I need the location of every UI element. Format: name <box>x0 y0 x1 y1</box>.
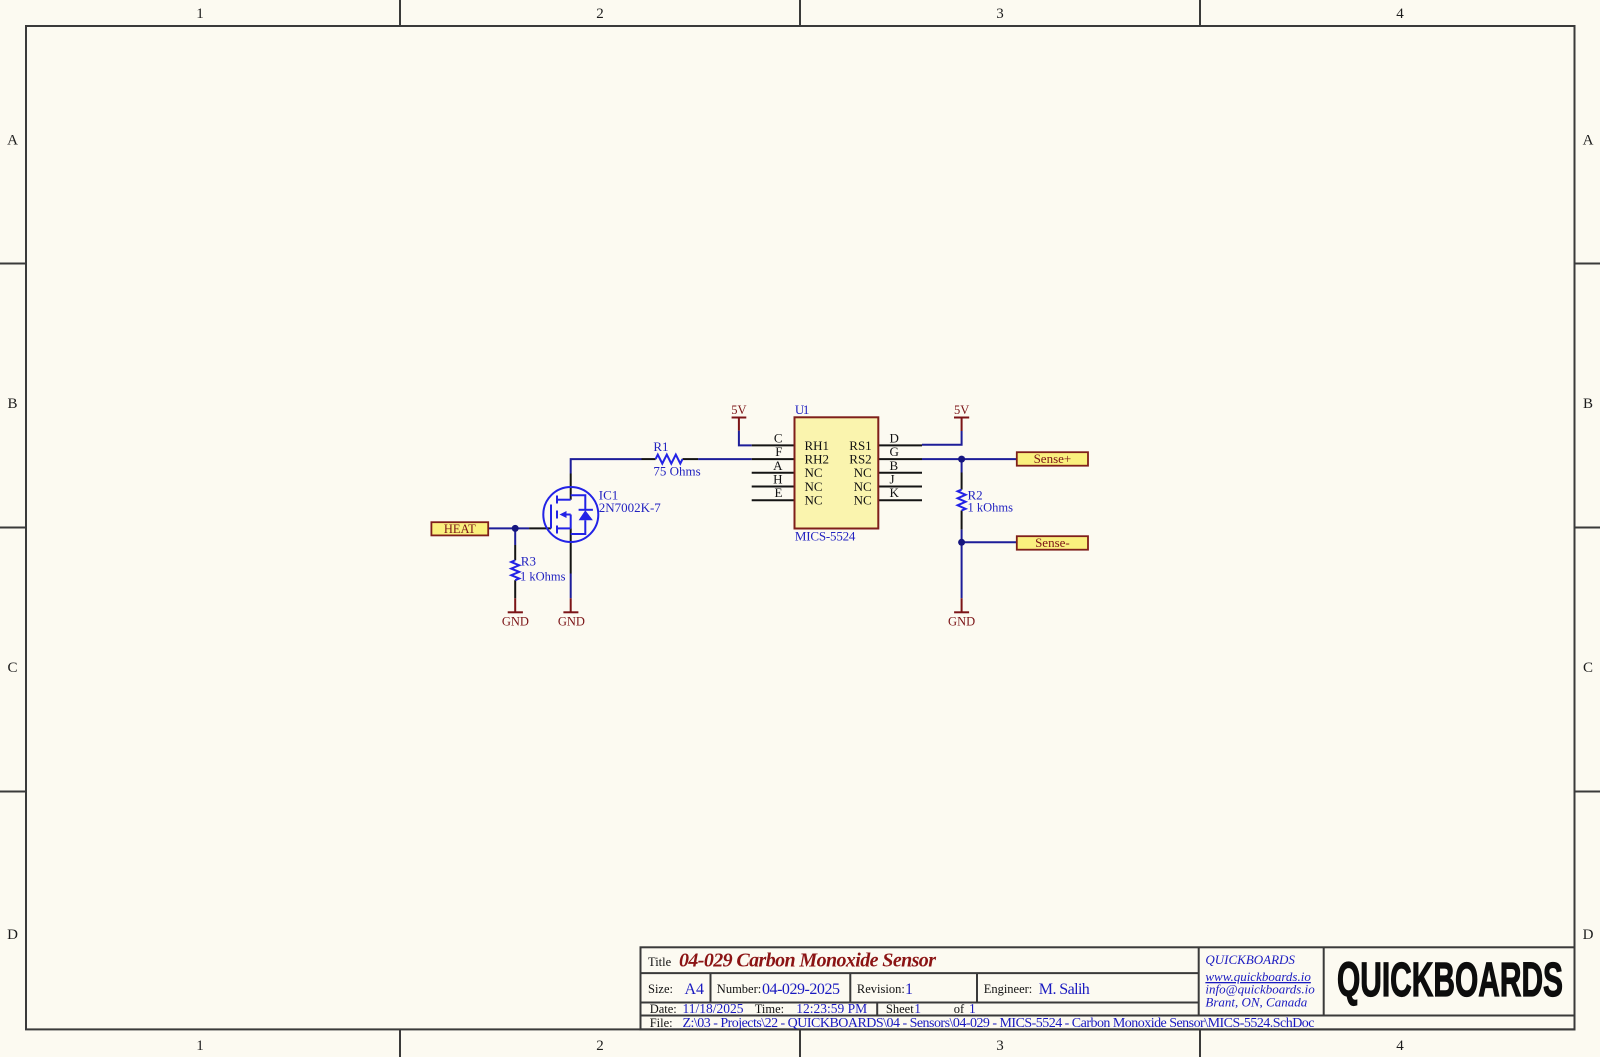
svg-text:12:23:59 PM: 12:23:59 PM <box>796 1001 867 1016</box>
svg-text:A4: A4 <box>685 981 705 998</box>
svg-text:Date:: Date: <box>650 1002 677 1016</box>
svg-text:D: D <box>7 927 18 943</box>
svg-text:HEAT: HEAT <box>444 522 476 536</box>
svg-text:M. Salih: M. Salih <box>1039 981 1090 998</box>
svg-text:Size:: Size: <box>648 982 673 996</box>
svg-text:E: E <box>775 485 783 500</box>
svg-text:Z:\03 - Projects\22 - QUICKBOA: Z:\03 - Projects\22 - QUICKBOARDS\04 - S… <box>683 1016 1315 1031</box>
svg-text:Sense+: Sense+ <box>1034 451 1072 466</box>
svg-text:GND: GND <box>948 615 975 629</box>
svg-text:04-029-2025: 04-029-2025 <box>762 981 840 998</box>
svg-text:1 kOhms: 1 kOhms <box>968 501 1014 515</box>
svg-text:1: 1 <box>905 981 913 998</box>
svg-text:1: 1 <box>914 1001 921 1016</box>
svg-text:Sheet: Sheet <box>886 1002 914 1016</box>
svg-text:3: 3 <box>996 1038 1004 1054</box>
svg-text:4: 4 <box>1396 6 1404 22</box>
svg-text:NC: NC <box>854 493 872 508</box>
svg-text:R3: R3 <box>521 553 536 568</box>
svg-text:Brant, ON, Canada: Brant, ON, Canada <box>1205 994 1307 1009</box>
svg-text:MICS-5524: MICS-5524 <box>795 529 856 544</box>
svg-text:4: 4 <box>1396 1038 1404 1054</box>
svg-text:NC: NC <box>805 493 823 508</box>
svg-text:2: 2 <box>596 1038 604 1054</box>
svg-text:Title: Title <box>648 955 672 969</box>
svg-text:1 kOhms: 1 kOhms <box>520 570 566 584</box>
svg-text:5V: 5V <box>731 403 746 417</box>
svg-text:C: C <box>7 660 17 676</box>
svg-text:1: 1 <box>196 6 204 22</box>
svg-text:Number:: Number: <box>717 982 761 996</box>
svg-text:1: 1 <box>196 1038 204 1054</box>
svg-text:B: B <box>1583 396 1593 412</box>
svg-text:2: 2 <box>596 6 604 22</box>
svg-text:11/18/2025: 11/18/2025 <box>683 1001 744 1016</box>
svg-text:Engineer:: Engineer: <box>984 982 1033 996</box>
svg-text:Sense-: Sense- <box>1035 535 1070 550</box>
svg-text:U1: U1 <box>795 402 810 417</box>
svg-text:GND: GND <box>558 615 585 629</box>
svg-text:GND: GND <box>502 615 529 629</box>
svg-text:3: 3 <box>996 6 1004 22</box>
svg-text:File:: File: <box>650 1016 673 1030</box>
svg-text:K: K <box>890 485 900 500</box>
svg-text:1: 1 <box>969 1001 976 1016</box>
svg-text:2N7002K-7: 2N7002K-7 <box>599 500 662 515</box>
svg-text:5V: 5V <box>954 403 969 417</box>
svg-text:A: A <box>7 133 18 149</box>
svg-text:B: B <box>7 396 17 412</box>
svg-text:R1: R1 <box>653 439 668 454</box>
svg-text:QUICKBOARDS: QUICKBOARDS <box>1205 952 1295 967</box>
svg-text:75 Ohms: 75 Ohms <box>653 464 700 479</box>
svg-text:D: D <box>1583 927 1594 943</box>
svg-text:04-029 Carbon Monoxide Sensor: 04-029 Carbon Monoxide Sensor <box>679 949 936 971</box>
svg-text:C: C <box>1583 660 1593 676</box>
svg-text:of: of <box>954 1002 965 1016</box>
svg-text:Revision:: Revision: <box>857 982 905 996</box>
svg-text:A: A <box>1583 133 1594 149</box>
svg-text:Time:: Time: <box>755 1002 784 1016</box>
svg-text:QUICKBOARDS: QUICKBOARDS <box>1337 954 1563 1007</box>
